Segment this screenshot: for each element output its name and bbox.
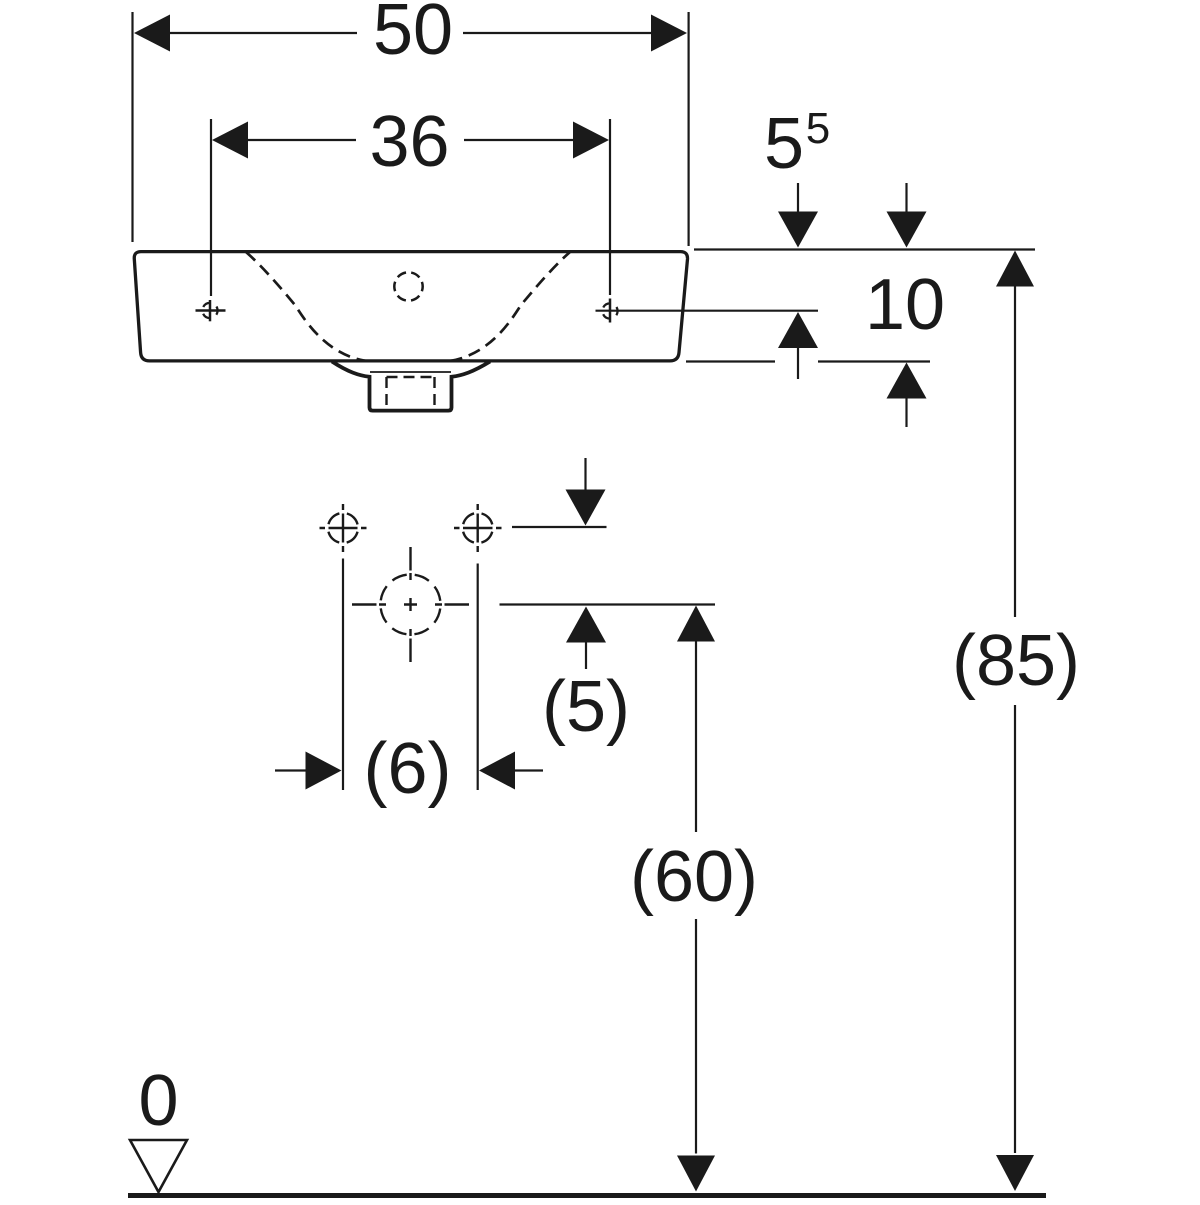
tap centre crosshair vertical: [409, 547, 411, 662]
svg-text:5: 5: [764, 104, 804, 184]
tap centre big dashed circle: [381, 575, 441, 635]
floor line: [128, 1193, 1046, 1198]
extension line below right small circle: [477, 564, 479, 791]
basin inner bowl dashed contour left: [246, 252, 366, 361]
svg-text:0: 0: [138, 1061, 178, 1141]
dimension 6 left arrow: [275, 752, 342, 790]
dimension 36 arrow right: [573, 122, 609, 159]
drain tailpiece dashed left: [385, 377, 387, 409]
dimension 5.5 upper arrow: [778, 183, 818, 248]
tap hole small circle left: [328, 513, 358, 543]
dimension 50 line: [170, 32, 653, 34]
svg-text:(60): (60): [630, 837, 758, 917]
tap hole small circle right crosshair horizontal: [454, 527, 502, 529]
dimension 50 arrow right: [651, 15, 687, 52]
dimension 36 extension line right: [609, 119, 611, 295]
tap hole small circle left crosshair horizontal: [320, 527, 367, 529]
basin outline: [134, 252, 687, 361]
dimension 50 extension line left: [131, 12, 133, 242]
dimension 36 line: [247, 139, 573, 141]
svg-text:(5): (5): [542, 667, 630, 747]
overflow hole dashed circle: [394, 272, 422, 300]
basin inner bowl dashed contour right: [450, 252, 570, 361]
svg-text:50: 50: [373, 0, 453, 70]
dimension 5 upper arrow: [566, 458, 606, 526]
tap hole small circle right crosshair vertical: [477, 504, 479, 552]
extension line below left small circle: [342, 559, 344, 791]
drain tailpiece dashed top: [387, 376, 435, 378]
dimension 85 lower arrow: [996, 705, 1034, 1191]
fixing hole right crosshair vertical: [609, 299, 612, 323]
tap centre crosshair horizontal: [352, 603, 469, 605]
dimension 6 right arrow: [479, 752, 543, 790]
dimension 10 upper arrow: [887, 183, 927, 248]
basin bottom reference line right: [686, 360, 930, 362]
top reference line right: [694, 248, 1035, 250]
dimension 36 arrow left: [212, 122, 248, 159]
dimension 5 lower arrow: [566, 607, 606, 670]
fixing hole left circle: [202, 303, 217, 318]
dimension 10 lower arrow: [887, 363, 927, 428]
svg-text:5: 5: [806, 104, 830, 153]
svg-text:(85): (85): [952, 621, 1080, 701]
svg-text:36: 36: [369, 102, 449, 182]
svg-text:10: 10: [865, 265, 945, 345]
fixing hole left crosshair vertical: [209, 300, 212, 321]
tap axis reference line for dimensions 5 and 60: [500, 603, 716, 605]
fixing hole axis line right: [596, 310, 819, 312]
tap hole small circle right: [463, 513, 493, 543]
dimension 50 arrow left: [134, 15, 170, 52]
fixing hole left crosshair horizontal: [196, 309, 226, 312]
fixing hole right circle: [602, 303, 617, 318]
hole axis reference line for dimension 5: [512, 526, 607, 528]
drain tailpiece dashed right: [433, 377, 435, 409]
dimension 5.5 lower arrow: [778, 312, 818, 379]
dimension 50 extension line right: [687, 12, 689, 246]
dimension 60 lower arrow: [677, 919, 715, 1192]
drain funnel outline: [332, 362, 490, 411]
drain inner edge line: [370, 371, 451, 373]
dimension 85 upper arrow: [996, 251, 1034, 618]
dimension 5.5 label: [764, 104, 830, 184]
tap hole small circle left crosshair vertical: [342, 504, 344, 552]
dimension 36 extension line left: [210, 119, 212, 296]
svg-text:(6): (6): [364, 729, 452, 809]
datum triangle: [130, 1140, 187, 1192]
dimension 60 upper arrow: [677, 606, 715, 833]
